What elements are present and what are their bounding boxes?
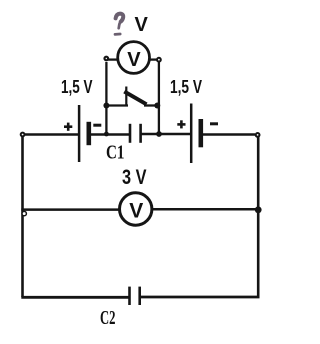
label V at top bbox=[135, 14, 149, 36]
svg-text:C2: C2 bbox=[100, 308, 116, 329]
wire node B vertical (right voltmeter lead down to rail) bbox=[158, 62, 160, 135]
wire middle rail right bbox=[153, 208, 260, 211]
battery B2 minus sign bbox=[210, 122, 218, 125]
terminal node U1 left bbox=[105, 57, 109, 61]
battery B2 short thick plate - bbox=[199, 119, 204, 147]
node right end of battery rail bbox=[256, 133, 260, 137]
svg-text:3 V: 3 V bbox=[122, 165, 147, 189]
svg-text:V: V bbox=[135, 14, 149, 36]
battery B1 plus sign bbox=[64, 123, 72, 131]
voltmeter U1 V marking bbox=[127, 48, 141, 71]
label C1 bbox=[106, 143, 125, 164]
switch S1 blade (open) bbox=[124, 92, 146, 105]
svg-text:1,5 V: 1,5 V bbox=[61, 76, 93, 97]
junction loop middle rail left bbox=[22, 211, 26, 215]
wire voltmeter U1 left stub bbox=[108, 58, 118, 60]
wire switch row right segment bbox=[144, 104, 159, 106]
voltmeter U2 V marking bbox=[129, 199, 144, 223]
junction dot rail node B bbox=[156, 131, 162, 137]
wire right outer vertical bbox=[257, 137, 260, 297]
junction dot switch row right bbox=[154, 103, 160, 109]
battery B1 1,5V left: + long plate bbox=[78, 105, 81, 162]
battery B2 plus sign bbox=[177, 120, 185, 128]
junction dot middle rail right bbox=[255, 206, 262, 213]
svg-text:V: V bbox=[127, 48, 141, 71]
label 1,5 V left battery bbox=[61, 76, 93, 97]
wire left outer vertical bbox=[21, 136, 24, 297]
capacitor C2 right plate bbox=[138, 287, 141, 305]
capacitor C2 left plate bbox=[128, 287, 131, 305]
capacitor C1 right plate bbox=[139, 124, 142, 143]
label 3 V bbox=[122, 165, 147, 189]
capacitor C1 left plate bbox=[129, 124, 132, 143]
svg-text:C1: C1 bbox=[106, 143, 125, 164]
battery B1 short thick plate - bbox=[87, 122, 92, 145]
label 1,5 V right battery bbox=[170, 76, 202, 97]
svg-text:1,5 V: 1,5 V bbox=[170, 76, 202, 97]
battery B1 minus sign bbox=[93, 124, 101, 127]
wire voltmeter U1 right stub bbox=[150, 58, 158, 60]
battery B2 1,5V right: + long plate bbox=[190, 104, 193, 164]
svg-text:V: V bbox=[129, 199, 144, 223]
wire middle rail left bbox=[21, 208, 119, 211]
label question mark (pencil) bbox=[115, 14, 123, 35]
node left end of battery rail bbox=[21, 133, 25, 137]
label C2 bbox=[100, 308, 116, 329]
wire bottom rail bbox=[21, 296, 259, 299]
terminal node U1 right bbox=[157, 58, 161, 62]
wire battery rail segments bbox=[25, 133, 256, 136]
wire switch row left segment bbox=[106, 104, 128, 106]
voltmeter U2 circle bbox=[120, 193, 152, 225]
junction dot switch row left bbox=[103, 103, 109, 109]
switch S1 pivot stub bbox=[125, 87, 127, 106]
wire node A vertical (left voltmeter lead down to rail) bbox=[105, 62, 107, 135]
voltmeter U1 circle bbox=[118, 42, 150, 74]
junction dot rail node A bbox=[104, 132, 109, 137]
